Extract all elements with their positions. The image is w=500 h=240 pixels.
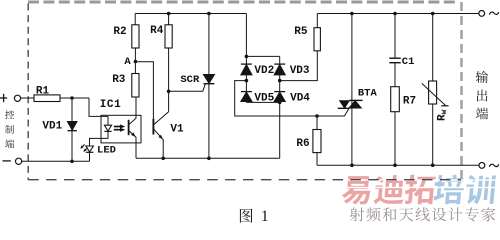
IC1 phototransistor [128,120,130,135]
svg-text:LED: LED [97,145,116,157]
transistor V1 [152,119,154,135]
wire: triac main column [351,14,353,166]
diode VD2 [245,56,247,64]
svg-text:BTA: BTA [358,88,378,100]
wire: - terminal rail [22,160,90,162]
svg-text:C1: C1 [402,56,415,68]
svg-text:VD4: VD4 [290,93,310,105]
wire: bridge top rail [246,55,279,57]
svg-text:IC1: IC1 [100,99,122,111]
svg-text:1: 1 [261,208,269,225]
wire: R6 bottom to AC bottom rail [316,153,318,166]
wire: SCR anode-cathode column [208,14,210,159]
triac BTA [340,101,349,108]
svg-text:V1: V1 [170,124,184,136]
caption 图 1 [240,209,253,223]
控制端 vertical label [5,110,14,148]
resistor R4 [165,25,172,48]
wire: bridge AC2 tap to R5 [280,51,318,81]
watermark logo text line 1 [341,175,496,205]
wire: R7 to bottom rail [394,112,396,166]
wire: bus down to bridge [245,14,247,57]
wire: bus down to C1 [394,14,396,59]
wire: bus down to R5 [316,14,318,28]
wire: top AC bus (right segment) [317,13,478,15]
resistor R1 [34,95,60,102]
diode VD5 [241,91,252,93]
wire: R4 to gate node [168,48,170,112]
IC1 coupling arrows [114,126,120,128]
wire: bus down to R4 [168,14,170,25]
wire: + terminal to R1 [21,97,34,99]
resistor R6 [315,114,319,118]
svg-text:R1: R1 [36,85,50,97]
LED emission arrows [81,144,88,151]
+ control terminal [0,97,7,99]
wire: bridge AC1 tap to triac gate [235,81,349,116]
varistor Rv [429,81,437,104]
watermark tagline line 2 [350,207,495,221]
wire: bus down to varistor [432,14,434,82]
svg-text:R2: R2 [113,26,126,38]
svg-text:R4: R4 [150,25,164,37]
thyristor SCR [204,75,215,84]
LED indicator diode [86,146,94,152]
svg-text:R3: R3 [112,74,126,86]
wire: DC common rail [136,157,280,159]
svg-text:VD2: VD2 [254,65,274,77]
svg-text:R7: R7 [403,96,416,108]
IC1 internal LED [107,116,109,125]
svg-text:A: A [124,56,131,68]
AC input terminal (top right) [479,11,485,17]
wire: bottom AC rail [317,164,479,166]
wire: top DC bus (left segment) [135,13,246,15]
wire: bus down to R2 [134,14,136,25]
wire: bridge bottom rail [246,101,279,103]
wire: varistor to bottom rail [432,104,434,165]
wire: down into IC1 LED anode [89,98,108,116]
diode VD1 [71,98,73,122]
- control terminal [3,160,11,162]
op-to-coupler IC1 box [101,115,141,143]
svg-text:R6: R6 [296,138,309,150]
resistor R2 [132,25,139,48]
wire: R1 to VD1 node to IC1 [60,97,89,99]
wire: bridge bottom to DC rail [279,102,281,158]
svg-text:VD1: VD1 [42,120,62,132]
wire: gate from V1 collector node [169,84,206,91]
resistor R5 [314,28,320,51]
wire: R2 to node A to R3 [134,48,136,74]
node A [134,60,138,64]
capacitor C1 [389,57,400,59]
AC output terminal (bottom right) [479,163,485,169]
diode VD3 [279,56,281,64]
diode VD4 [274,91,285,93]
resistor R7 [391,87,400,112]
resistor R3 [132,74,139,98]
输出端 vertical label [476,71,488,120]
wire: C1 to R7 [394,63,396,87]
svg-text:SCR: SCR [180,74,200,86]
wire: node A to V1 base [135,62,153,119]
svg-text:VD3: VD3 [290,65,310,77]
svg-text:R5: R5 [294,26,308,38]
